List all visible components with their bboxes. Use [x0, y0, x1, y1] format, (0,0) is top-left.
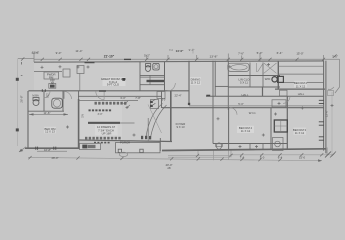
svg-text:21'-10": 21'-10" [104, 55, 115, 59]
svg-text:12 X 13: 12 X 13 [45, 130, 55, 134]
svg-text:11 X 12: 11 X 12 [241, 129, 251, 133]
svg-text:PORCH: PORCH [120, 140, 130, 144]
svg-text:7'-8": 7'-8" [135, 96, 141, 100]
svg-text:9'-0": 9'-0" [189, 48, 195, 52]
svg-text:5'-0": 5'-0" [238, 102, 244, 106]
svg-text:5'-0: 5'-0 [260, 155, 265, 159]
svg-text:5 X 11: 5 X 11 [240, 80, 248, 84]
svg-text:O: O [46, 95, 48, 99]
svg-text:16'-8": 16'-8" [44, 148, 51, 152]
svg-text:5'-2": 5'-2" [144, 53, 150, 57]
svg-text:9'-0": 9'-0" [56, 51, 62, 55]
svg-text:HALL: HALL [242, 93, 249, 97]
svg-text:15'-0": 15'-0" [296, 52, 303, 56]
svg-text:11 X 12: 11 X 12 [296, 84, 306, 88]
svg-text:26'-8": 26'-8" [20, 95, 24, 102]
svg-text:W.I.C.: W.I.C. [249, 111, 257, 115]
svg-text:9 X 13: 9 X 13 [176, 125, 185, 129]
svg-text:14'-0": 14'-0" [176, 49, 184, 53]
svg-text:11'-6": 11'-6" [44, 111, 51, 115]
svg-text:W/D: W/D [265, 77, 270, 81]
svg-text:12'-0": 12'-0" [324, 110, 328, 117]
svg-text:28'-0": 28'-0" [51, 156, 58, 160]
svg-text:12'-6": 12'-6" [32, 50, 39, 54]
svg-text:11 X 12: 11 X 12 [295, 131, 305, 135]
svg-text:3'-0": 3'-0" [120, 96, 126, 100]
svg-text:SP: SP [51, 82, 55, 85]
svg-text:7'-6": 7'-6" [238, 51, 244, 55]
svg-text:M.BA: M.BA [32, 93, 39, 97]
svg-text:7'-6: 7'-6 [240, 155, 245, 159]
svg-text:6'-4": 6'-4" [277, 51, 283, 55]
svg-text:3'-0": 3'-0" [332, 54, 338, 58]
svg-text:3'-0": 3'-0" [98, 113, 103, 116]
svg-text:11'-4": 11'-4" [75, 49, 82, 53]
svg-text:AB: AB [167, 167, 171, 170]
svg-text:22'-4": 22'-4" [174, 93, 181, 97]
svg-text:5-0: 5-0 [162, 98, 166, 101]
svg-text:5'-0": 5'-0" [257, 51, 263, 55]
svg-text:13'-8": 13'-8" [210, 54, 218, 58]
svg-text:DN: DN [82, 114, 85, 118]
svg-text:UP 16R: UP 16R [102, 132, 112, 136]
svg-text:9 FT CLG: 9 FT CLG [107, 82, 119, 86]
svg-text:6'-4: 6'-4 [278, 155, 283, 159]
svg-text:3'-0: 3'-0 [169, 49, 174, 52]
svg-text:15'-0: 15'-0 [299, 155, 306, 159]
svg-text:11 X 12: 11 X 12 [191, 81, 201, 85]
svg-text:HALL: HALL [298, 92, 305, 96]
